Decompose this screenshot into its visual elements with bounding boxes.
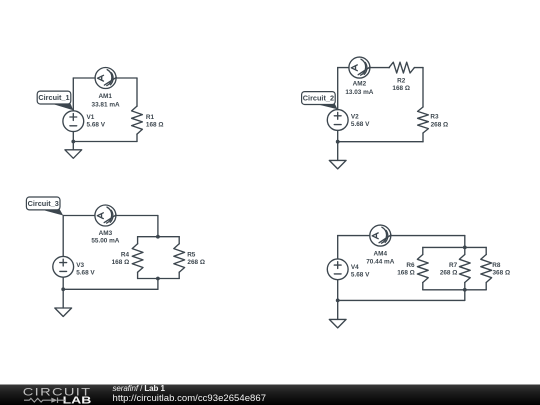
svg-text:serafinf / Lab 1: serafinf / Lab 1	[113, 384, 166, 393]
svg-text:168 Ω: 168 Ω	[146, 122, 164, 129]
svg-text:5.68 V: 5.68 V	[76, 270, 95, 277]
svg-text:http://circuitlab.com/cc93e265: http://circuitlab.com/cc93e2654e867	[113, 393, 267, 404]
svg-text:R4: R4	[121, 252, 130, 259]
svg-text:168 Ω: 168 Ω	[112, 259, 130, 266]
svg-text:Circuit_3: Circuit_3	[28, 199, 59, 208]
svg-text:168 Ω: 168 Ω	[392, 85, 410, 92]
svg-text:368 Ω: 368 Ω	[493, 270, 511, 277]
svg-text:13.03 mA: 13.03 mA	[345, 89, 373, 96]
svg-text:70.44 mA: 70.44 mA	[366, 259, 394, 266]
svg-text:268 Ω: 268 Ω	[431, 122, 449, 129]
svg-text:5.68 V: 5.68 V	[351, 121, 370, 128]
svg-text:V4: V4	[351, 264, 359, 271]
svg-text:AM4: AM4	[374, 251, 388, 258]
svg-text:R3: R3	[430, 113, 439, 120]
svg-text:R7: R7	[449, 262, 458, 269]
svg-text:168 Ω: 168 Ω	[397, 270, 415, 277]
svg-text:R2: R2	[397, 78, 406, 85]
svg-text:Circuit_1: Circuit_1	[38, 93, 69, 102]
svg-text:33.81 mA: 33.81 mA	[92, 101, 120, 108]
svg-text:5.68 V: 5.68 V	[351, 272, 370, 279]
svg-text:268 Ω: 268 Ω	[187, 259, 205, 266]
svg-text:V1: V1	[87, 114, 95, 121]
svg-text:55.00 mA: 55.00 mA	[91, 238, 119, 245]
svg-text:Circuit_2: Circuit_2	[303, 94, 334, 103]
svg-text:R5: R5	[187, 251, 196, 258]
svg-text:AM2: AM2	[353, 80, 367, 87]
svg-text:AM1: AM1	[98, 93, 112, 100]
svg-text:5.68 V: 5.68 V	[87, 122, 106, 129]
svg-text:V2: V2	[351, 114, 359, 121]
svg-text:R6: R6	[406, 262, 415, 269]
svg-text:LAB: LAB	[63, 395, 92, 405]
svg-text:R8: R8	[492, 262, 501, 269]
svg-text:AM3: AM3	[99, 230, 113, 237]
svg-text:V3: V3	[76, 262, 84, 269]
svg-text:268 Ω: 268 Ω	[440, 270, 458, 277]
svg-text:R1: R1	[146, 114, 155, 121]
